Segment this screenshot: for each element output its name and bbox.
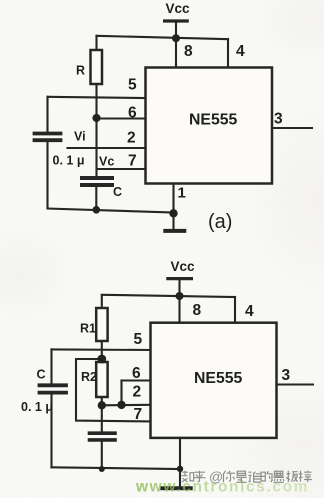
svg-text:0. 1 μ: 0. 1 μ xyxy=(21,400,53,414)
svg-text:NE555: NE555 xyxy=(194,370,243,387)
svg-text:4: 4 xyxy=(236,43,245,60)
svg-text:7: 7 xyxy=(128,153,137,170)
svg-text:Vcc: Vcc xyxy=(171,259,196,274)
svg-text:3: 3 xyxy=(282,367,291,384)
svg-text:R2: R2 xyxy=(81,370,97,384)
svg-text:5: 5 xyxy=(134,331,143,348)
svg-text:@: @ xyxy=(209,469,223,485)
svg-text:Vcc: Vcc xyxy=(166,1,191,16)
svg-text:Vc: Vc xyxy=(99,155,114,169)
svg-text:1: 1 xyxy=(178,185,186,202)
svg-text:4: 4 xyxy=(245,303,254,320)
svg-text:8: 8 xyxy=(193,302,202,319)
svg-text:NE555: NE555 xyxy=(189,112,238,129)
svg-text:2: 2 xyxy=(133,384,142,401)
svg-text:6: 6 xyxy=(128,105,137,122)
svg-text:R: R xyxy=(76,64,85,78)
svg-text:3: 3 xyxy=(274,111,283,128)
svg-text:Vi: Vi xyxy=(74,130,86,144)
svg-text:2: 2 xyxy=(127,130,136,147)
svg-text:8: 8 xyxy=(184,43,193,60)
svg-text:C: C xyxy=(37,368,46,382)
svg-text:R1: R1 xyxy=(80,322,96,336)
svg-text:0. 1 μ: 0. 1 μ xyxy=(53,154,85,168)
svg-text:C: C xyxy=(113,185,122,199)
svg-text:7: 7 xyxy=(134,406,143,423)
svg-text:(a): (a) xyxy=(208,211,232,233)
svg-text:6: 6 xyxy=(132,365,141,382)
svg-text:5: 5 xyxy=(128,77,137,94)
